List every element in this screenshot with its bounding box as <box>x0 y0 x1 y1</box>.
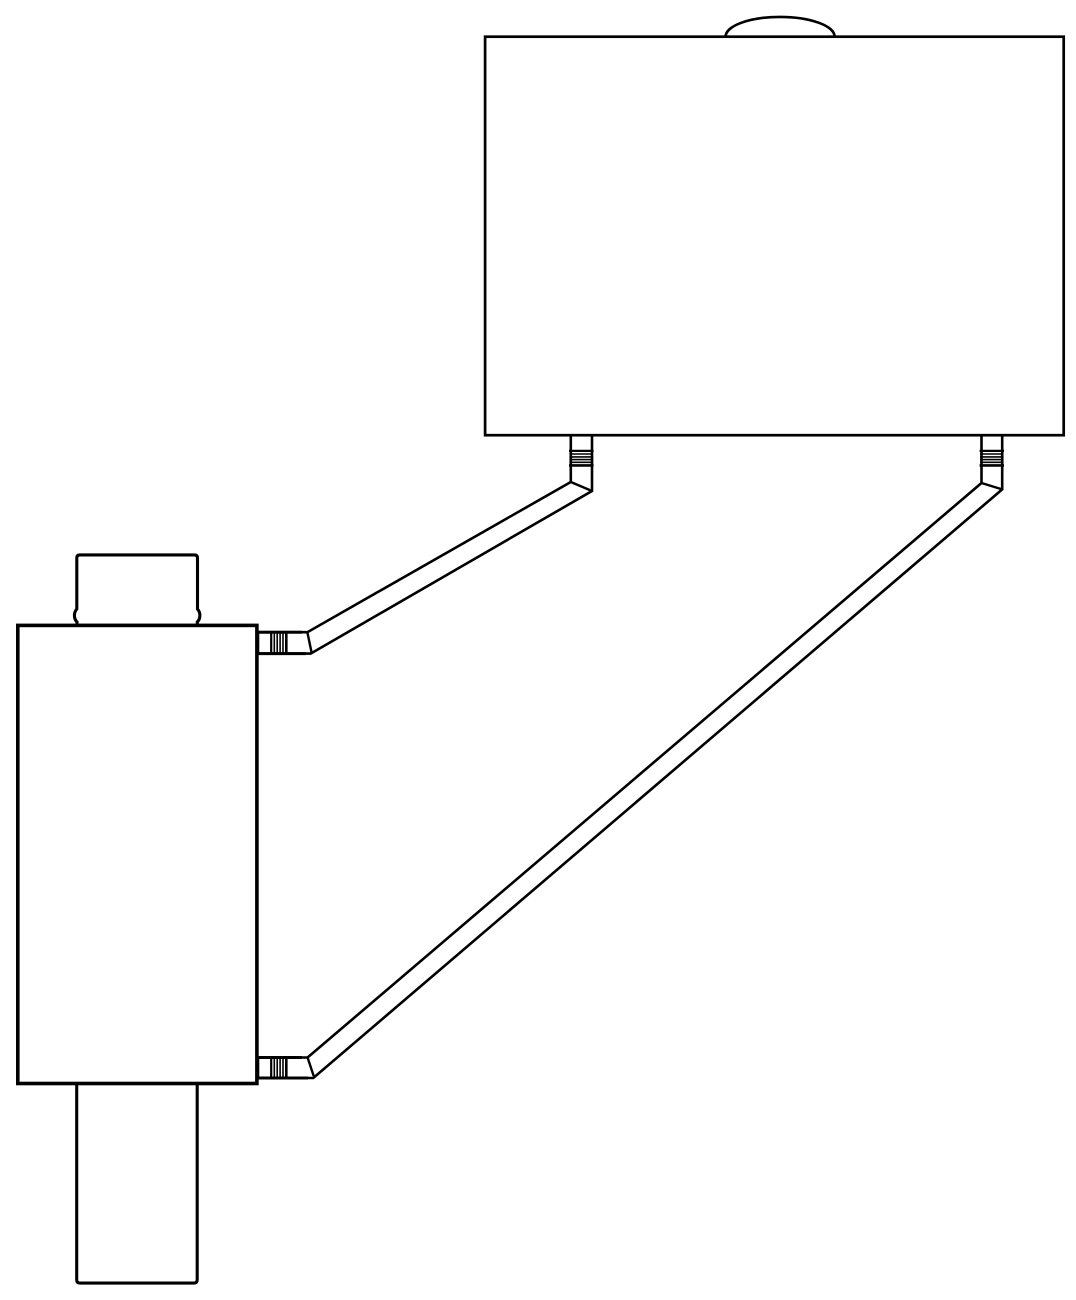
lower fitting edges (thicker top/bottom of muffler lower nipple) <box>257 1058 308 1079</box>
outlet pipe 13 (bottom pipe of muffler body) <box>77 1084 198 1284</box>
threads on muffler upper fitting <box>271 631 286 654</box>
elbow miter at muffler upper fitting <box>307 632 311 652</box>
threads on tank right nipple <box>980 451 1004 466</box>
tank 10 (large rectangle, top right) <box>485 37 1064 436</box>
threads on muffler lower fitting <box>271 1057 286 1080</box>
upper pipe 20 (30-degree pipe run: muffler upper fitting to tank left nipple) <box>258 435 592 653</box>
lower pipe 21 (40-degree pipe run: muffler lower fitting to tank right nipple) <box>258 435 1002 1078</box>
elbow miter at muffler lower fitting <box>308 1058 314 1076</box>
elbow miter at tank left nipple <box>571 482 592 491</box>
upper fitting edges (thicker top/bottom of muffler upper nipple) <box>257 632 306 653</box>
filler dome cap on tank top <box>726 17 835 37</box>
muffler body 11 (left vertical canister) <box>18 625 257 1083</box>
inlet cap 12 (top cap on muffler body) <box>74 555 199 626</box>
threads on tank left nipple <box>569 451 594 466</box>
elbow miter at tank right nipple <box>982 483 1003 489</box>
